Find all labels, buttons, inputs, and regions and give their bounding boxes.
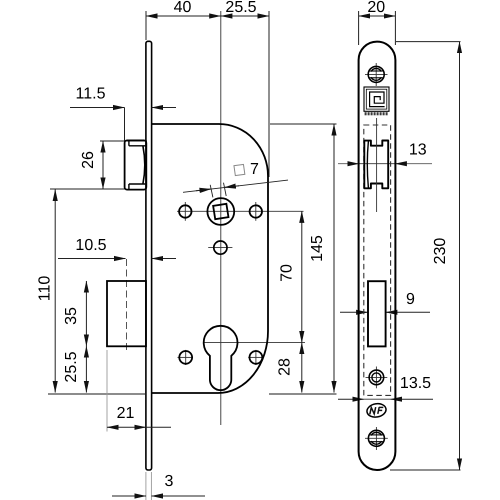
svg-text:25.5: 25.5 [225, 0, 256, 16]
centerline cylinder horizontal [203, 342, 305, 344]
centerline right cylinder circle [255, 350, 257, 365]
centerline follower horizontal [177, 210, 304, 212]
top screw front view [365, 63, 388, 86]
dimension 3 [112, 495, 146, 497]
extension line body right top [268, 11, 270, 177]
dimension 10.5 [58, 258, 126, 260]
centerline left cylinder circle [185, 350, 187, 365]
svg-text:13: 13 [409, 142, 427, 159]
svg-text:10.5: 10.5 [75, 237, 106, 254]
svg-text:28: 28 [277, 358, 294, 376]
centerline left follower circle vertical [184, 202, 186, 221]
svg-text:230: 230 [432, 238, 449, 265]
faceplate front view [359, 42, 396, 470]
follower hub circle [207, 198, 234, 225]
svg-text:21: 21 [117, 405, 135, 422]
extension line faceplate left top [145, 11, 147, 40]
svg-text:110: 110 [37, 276, 54, 302]
dimension 9 [340, 311, 368, 313]
svg-text:9: 9 [406, 291, 415, 308]
dimension 35 [85, 281, 87, 346]
bottom screw front view [365, 427, 388, 450]
dimension 7 slanted [183, 180, 288, 192]
dimension 26 [102, 141, 104, 189]
dimension 70 [301, 211, 303, 342]
euro cylinder hole [204, 326, 238, 390]
extension line latch bottom / 110 top [50, 188, 125, 190]
svg-text:26: 26 [80, 151, 97, 169]
dashed hidden body outline front view [364, 125, 391, 395]
extension line latch top [100, 140, 147, 142]
svg-text:11.5: 11.5 [76, 86, 106, 103]
extension lines faceplate bottom for dim 3 [145, 472, 147, 500]
svg-text:13.5: 13.5 [400, 375, 431, 392]
follower square spindle hole [213, 204, 228, 219]
label square 7 symbol [234, 164, 245, 175]
screw post circle left of cylinder [179, 351, 192, 364]
screw post circle right of follower [250, 205, 262, 217]
extension line latch front face [124, 108, 126, 142]
screw post circle below follower [214, 241, 227, 254]
centerline lower circle horizontal [208, 247, 232, 249]
dimension 110 [54, 190, 56, 393]
deadbolt opening front view [368, 281, 386, 346]
latch centerline vertical front view [376, 118, 378, 212]
extension line body bottom left [48, 393, 145, 395]
svg-text:40: 40 [174, 0, 192, 16]
svg-text:35: 35 [63, 307, 80, 325]
dimension 230 [459, 42, 461, 470]
extension line body bottom right to 145 dim [269, 393, 337, 395]
centerline right follower circle vertical [255, 202, 257, 221]
svg-text:3: 3 [165, 473, 174, 490]
dimension 145 [333, 124, 335, 393]
extension 230 top [396, 41, 461, 43]
extension line deadbolt left edge down [106, 350, 108, 432]
dimension 28 [301, 343, 303, 393]
dimension 40 [146, 15, 221, 17]
extension line body top to 145 dim [270, 123, 337, 125]
centerline vertical through follower and cylinder [220, 11, 222, 425]
dimension 20 [359, 15, 396, 17]
dimension 25.5 top [221, 15, 269, 17]
svg-text:70: 70 [279, 264, 296, 282]
middle screw hole front view [366, 367, 388, 389]
screw post circle right of cylinder [250, 351, 263, 364]
dimension 13 latch front [338, 163, 359, 165]
svg-text:7: 7 [250, 161, 259, 178]
latch bolt side view [125, 140, 147, 189]
svg-text:20: 20 [367, 0, 385, 16]
centerline deadbolt dashed [126, 259, 128, 352]
svg-text:145: 145 [309, 235, 326, 262]
faceplate side view [146, 41, 152, 470]
extension 20 right [394, 11, 396, 45]
extension 20 left [358, 11, 360, 45]
latch bolt front view [364, 141, 388, 189]
dimension 25.5 left [85, 346, 87, 393]
lock body outline [152, 124, 268, 393]
extension 230 bottom [390, 469, 461, 471]
dimension 13.5 [338, 398, 364, 400]
dimension 11.5 [70, 107, 125, 109]
Heracles logo [364, 87, 389, 111]
dimension 21 [107, 426, 146, 428]
NF logo [366, 402, 387, 418]
screw post circle left of follower [179, 205, 191, 217]
deadbolt side view [107, 281, 146, 346]
svg-text:25.5: 25.5 [63, 351, 80, 382]
